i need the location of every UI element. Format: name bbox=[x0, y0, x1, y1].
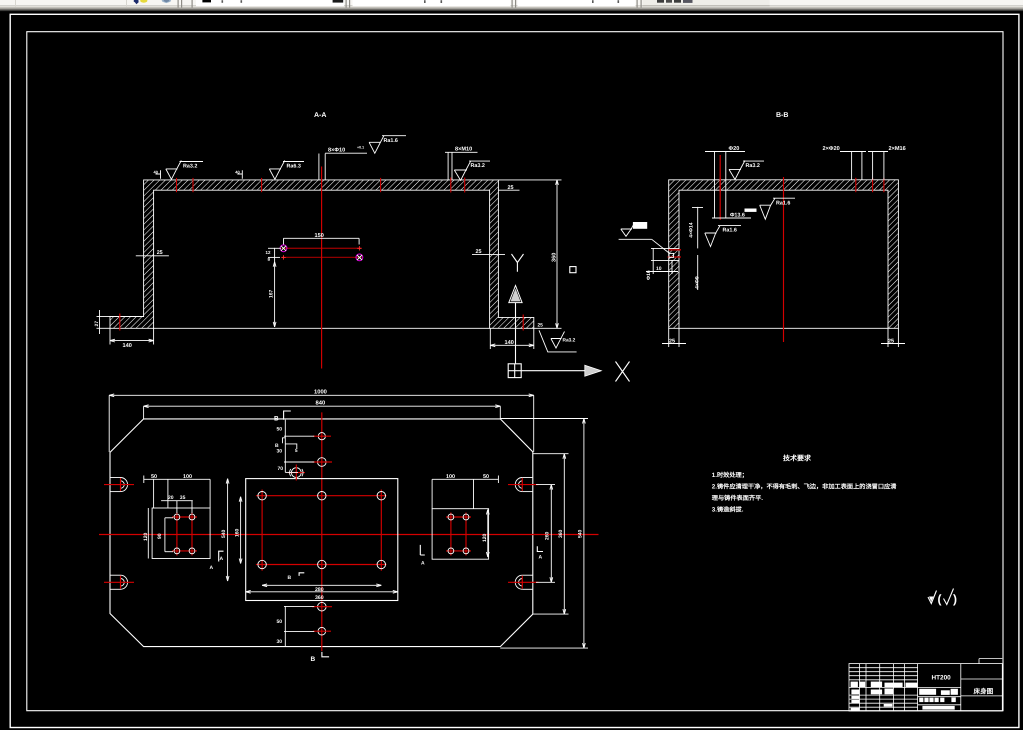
A-A boss lines (dark red) bbox=[282, 247, 362, 249]
svg-text:Ra1.6: Ra1.6 bbox=[776, 200, 790, 206]
red tick across right foot bbox=[522, 315, 524, 331]
right slot top bbox=[508, 478, 539, 492]
dim 8xD10 callout bbox=[319, 146, 367, 180]
svg-text:120: 120 bbox=[143, 532, 149, 541]
red hole centerline ticks across top flange bbox=[177, 178, 465, 193]
tiny edge mark left bbox=[154, 169, 161, 178]
small dims left of boss bbox=[266, 248, 282, 262]
dim 140 below right foot bbox=[490, 328, 534, 349]
left pattern dims 20/35 bbox=[161, 495, 193, 513]
dim 25 left wall bbox=[136, 250, 169, 256]
svg-text:30: 30 bbox=[277, 449, 283, 455]
magenta circle marker top-left of boss bbox=[280, 245, 287, 252]
svg-text:): ) bbox=[953, 592, 957, 606]
dim 25 below B-B left wall bbox=[662, 328, 686, 347]
svg-text:HT200: HT200 bbox=[932, 675, 952, 682]
svg-text:1000: 1000 bbox=[314, 389, 327, 396]
svg-text:5: 5 bbox=[295, 448, 298, 453]
svg-text:B: B bbox=[275, 443, 279, 449]
toolbar separators bbox=[178, 0, 179, 8]
central red bolt rectangle bbox=[256, 490, 387, 571]
svg-text:360: 360 bbox=[552, 253, 558, 262]
roughness below right foot bbox=[539, 330, 577, 352]
label D13.6 below hole bbox=[712, 209, 757, 219]
B-B left wall hole (red) bbox=[651, 248, 681, 260]
svg-text:25: 25 bbox=[476, 249, 482, 255]
combo: plot style with text bbox=[643, 0, 770, 5]
svg-text:(: ( bbox=[938, 592, 942, 606]
svg-text:理与铸件表面齐平.: 理与铸件表面齐平. bbox=[712, 494, 763, 502]
icon: steel cube fragment bbox=[162, 0, 172, 3]
A-A interior bottom line bbox=[154, 327, 490, 329]
svg-text:25: 25 bbox=[157, 250, 163, 256]
target hole left of centerline bbox=[288, 465, 305, 481]
svg-text:A: A bbox=[539, 555, 543, 561]
right region horizontals bbox=[961, 678, 1003, 680]
roughness Ra3.2 at D20 bbox=[729, 161, 764, 180]
dim D20 top bbox=[705, 146, 745, 218]
dim 167 boss to base bbox=[269, 262, 276, 327]
svg-text:B: B bbox=[288, 575, 292, 581]
right side dim 260 bbox=[536, 485, 555, 583]
icon: yellow blob bbox=[140, 0, 147, 3]
svg-text:540: 540 bbox=[578, 529, 584, 538]
red centerline of D20 hole bbox=[719, 155, 721, 220]
left slot bottom bbox=[104, 575, 134, 589]
central pad outer rectangle bbox=[246, 479, 398, 601]
dim 280 below central rect bbox=[262, 584, 381, 593]
small square marker bbox=[570, 267, 576, 273]
svg-text:20: 20 bbox=[168, 495, 174, 501]
svg-text:360: 360 bbox=[315, 595, 324, 601]
4xD9 vertical dim below bbox=[695, 255, 701, 290]
svg-text:8×M10: 8×M10 bbox=[455, 147, 472, 153]
svg-text:A: A bbox=[220, 556, 224, 562]
toolbar strip bbox=[0, 0, 1023, 11]
holes on top vertical centerline bbox=[312, 433, 332, 467]
handwriting blobs row 1 bbox=[851, 682, 958, 711]
svg-text:140: 140 bbox=[505, 340, 514, 346]
top-center dim chain 50/30/70 bbox=[275, 420, 314, 473]
roughness symbol Ra3.2 right bbox=[454, 161, 490, 181]
svg-text:4×Φ14: 4×Φ14 bbox=[688, 222, 694, 238]
combo: lineweight ByLayer bbox=[518, 0, 636, 6]
A-A hatched cross-section (top flange, walls, feet) bbox=[110, 180, 534, 328]
svg-text:Ra3.2: Ra3.2 bbox=[183, 164, 197, 170]
middle region horizontals bbox=[918, 696, 961, 698]
svg-text:50: 50 bbox=[277, 619, 283, 625]
section B mark inside bottom bbox=[288, 573, 305, 581]
svg-text:27: 27 bbox=[94, 321, 100, 327]
svg-text:40: 40 bbox=[154, 169, 159, 174]
plan main vertical red centerline bbox=[321, 412, 323, 651]
svg-text:120: 120 bbox=[482, 533, 488, 542]
section B mark top bbox=[274, 411, 291, 422]
roughness symbol Ra1.6 at 8xD10 bbox=[369, 136, 406, 154]
svg-text:50: 50 bbox=[151, 474, 157, 480]
handwriting blobs left column lower bbox=[851, 696, 859, 699]
dim 25 right foot height bbox=[538, 323, 544, 329]
dim 8xM10 callout bbox=[445, 147, 478, 180]
svg-text:150: 150 bbox=[315, 233, 324, 239]
right pad holes bbox=[446, 513, 471, 556]
dim 25 below B-B right wall bbox=[881, 328, 905, 347]
svg-text:Φ13.6: Φ13.6 bbox=[730, 213, 745, 219]
UCS X axis arrow bbox=[521, 365, 601, 376]
icon: navy arrow fragment bbox=[134, 0, 139, 4]
svg-text:50: 50 bbox=[277, 427, 283, 433]
UCS X label bbox=[616, 362, 630, 382]
dim 150 above boss bbox=[284, 233, 360, 245]
A-A vertical red centerline bbox=[321, 167, 323, 369]
left pattern dim 120 bbox=[143, 508, 149, 559]
svg-text:4×Φ9: 4×Φ9 bbox=[695, 276, 701, 289]
svg-text:B-B: B-B bbox=[776, 112, 788, 119]
roughness Ra1.6 at D13.6 bbox=[760, 198, 795, 219]
svg-text:167: 167 bbox=[269, 289, 275, 298]
left slot top bbox=[104, 478, 134, 492]
section B mark bottom bbox=[311, 652, 330, 663]
svg-text:70: 70 bbox=[278, 466, 284, 472]
svg-text:25: 25 bbox=[888, 338, 894, 344]
left pattern dim 90 bbox=[157, 518, 173, 552]
svg-text:Φ16: Φ16 bbox=[646, 270, 652, 280]
svg-text:2.铸件应清理干净，不得有毛刺、飞边，非加工表面上的浇冒口应: 2.铸件应清理干净，不得有毛刺、飞边，非加工表面上的浇冒口应清 bbox=[712, 482, 897, 490]
svg-text:40: 40 bbox=[235, 169, 240, 174]
svg-text:Ra3.2: Ra3.2 bbox=[471, 163, 485, 169]
central bolt circles bbox=[258, 492, 386, 569]
svg-text:Φ20: Φ20 bbox=[729, 146, 740, 152]
svg-text:100: 100 bbox=[446, 474, 455, 480]
extra cell top right bbox=[979, 658, 1002, 660]
svg-text:8×Φ10: 8×Φ10 bbox=[328, 148, 345, 154]
section A mark right bbox=[420, 545, 425, 567]
svg-text:Ra3.2: Ra3.2 bbox=[746, 163, 760, 169]
central rect dim 240 left bbox=[221, 479, 229, 581]
right slot bottom bbox=[508, 575, 539, 589]
svg-text:Ra1.6: Ra1.6 bbox=[384, 138, 398, 144]
svg-text:A: A bbox=[421, 561, 425, 567]
UCS Y axis arrow bbox=[509, 286, 522, 365]
dim 25 right wall top bbox=[498, 185, 519, 191]
svg-text:A: A bbox=[210, 565, 214, 571]
4xD14 vertical dim bbox=[688, 207, 703, 249]
svg-text:840: 840 bbox=[316, 400, 326, 407]
middle blobs bbox=[919, 689, 936, 695]
left bolt pad rectangle bbox=[152, 508, 210, 559]
svg-text:25: 25 bbox=[669, 338, 675, 344]
svg-text:+0.1: +0.1 bbox=[357, 146, 364, 150]
roughness symbol left 1 bbox=[166, 161, 203, 180]
plan view outline (octagon) bbox=[110, 419, 533, 647]
svg-text:B: B bbox=[274, 415, 279, 422]
roughness symbol left 2 bbox=[269, 161, 304, 180]
red tick across left foot bbox=[119, 314, 121, 331]
svg-text:140: 140 bbox=[123, 343, 132, 349]
handwriting blobs row 2 bbox=[851, 690, 859, 695]
svg-text:540: 540 bbox=[221, 529, 227, 538]
left pattern dims 50/100 bbox=[144, 474, 210, 508]
title block grid horizontals (left region) bbox=[849, 667, 918, 669]
right pattern dim 120 bbox=[482, 510, 489, 558]
red hole ticks across B-B flange bbox=[720, 178, 884, 192]
holes on bottom vertical centerline bbox=[312, 602, 332, 635]
central rect dim 160 inner left bbox=[235, 497, 242, 564]
B-B interior bottom line bbox=[679, 327, 888, 329]
svg-text:3.铸造斜拔.: 3.铸造斜拔. bbox=[712, 505, 744, 513]
UCS icon Y label bbox=[512, 254, 524, 272]
dim 360 overall height right bbox=[498, 180, 561, 328]
combo: linetype ByLayer bbox=[353, 0, 511, 6]
svg-text:12: 12 bbox=[266, 250, 271, 255]
svg-text:25: 25 bbox=[538, 323, 544, 329]
section A mark far right bbox=[537, 546, 543, 560]
plan main horizontal red centerline bbox=[99, 534, 599, 536]
svg-text:1.时效处理；: 1.时效处理； bbox=[712, 471, 748, 479]
svg-text:35: 35 bbox=[180, 495, 186, 501]
B-B vertical red centerline bbox=[783, 177, 785, 342]
svg-text:2×Φ20: 2×Φ20 bbox=[823, 146, 840, 152]
svg-text:30: 30 bbox=[277, 639, 283, 645]
svg-text:25: 25 bbox=[508, 185, 514, 191]
dim 360 below central rect bbox=[246, 590, 398, 600]
svg-text:2×M16: 2×M16 bbox=[889, 146, 906, 152]
UCS origin box bbox=[508, 364, 521, 378]
svg-text:Ra6.3: Ra6.3 bbox=[287, 164, 301, 170]
B-B hatched cross-section bbox=[669, 180, 899, 328]
svg-text:260: 260 bbox=[545, 531, 551, 540]
left wall surface leader with box bbox=[619, 222, 670, 254]
combo: color control ByLayer bbox=[196, 0, 344, 6]
left pad holes bbox=[172, 513, 197, 556]
svg-text:技术要求: 技术要求 bbox=[783, 454, 812, 463]
title block grid verticals bbox=[859, 664, 861, 711]
svg-text:B: B bbox=[311, 656, 316, 663]
bottom-center dim chain 50/30 bbox=[277, 606, 315, 646]
title block bbox=[849, 659, 1002, 711]
magenta circle marker bottom-right of boss bbox=[356, 254, 363, 261]
svg-text:160: 160 bbox=[235, 528, 241, 537]
dim 27 left foot bbox=[94, 310, 110, 334]
svg-text:10: 10 bbox=[656, 266, 662, 272]
right side dim 540 bbox=[500, 419, 588, 649]
right side dim 360 bbox=[533, 454, 569, 614]
svg-text:360: 360 bbox=[558, 529, 564, 538]
svg-text:50: 50 bbox=[483, 474, 489, 480]
dim 140 below left foot bbox=[110, 328, 154, 349]
dim 2xD20 top right bbox=[823, 146, 867, 180]
roughness general mark bbox=[928, 589, 957, 607]
svg-text:100: 100 bbox=[183, 474, 192, 480]
svg-text:A-A: A-A bbox=[314, 112, 326, 119]
dim 1000 top bbox=[109, 389, 534, 452]
right bolt pad rectangle bbox=[432, 509, 489, 560]
right pattern dims 100/50 bbox=[432, 474, 498, 509]
svg-text:Ra3.2: Ra3.2 bbox=[563, 338, 576, 344]
section A mark left bbox=[210, 551, 224, 571]
svg-text:90: 90 bbox=[157, 533, 163, 539]
dim 840 top bbox=[144, 400, 501, 419]
small cross markers on boss bbox=[357, 246, 361, 250]
dim 2xM16 top right bbox=[868, 146, 906, 180]
D16 and 10 labels at left wall hole bbox=[646, 248, 678, 280]
tiny edge mark mid bbox=[235, 169, 242, 178]
dim 25 right wall bbox=[472, 249, 505, 255]
svg-text:Ra1.6: Ra1.6 bbox=[723, 228, 737, 234]
roughness Ra1.6 mid bbox=[705, 226, 741, 247]
svg-text:床身图: 床身图 bbox=[974, 688, 994, 696]
